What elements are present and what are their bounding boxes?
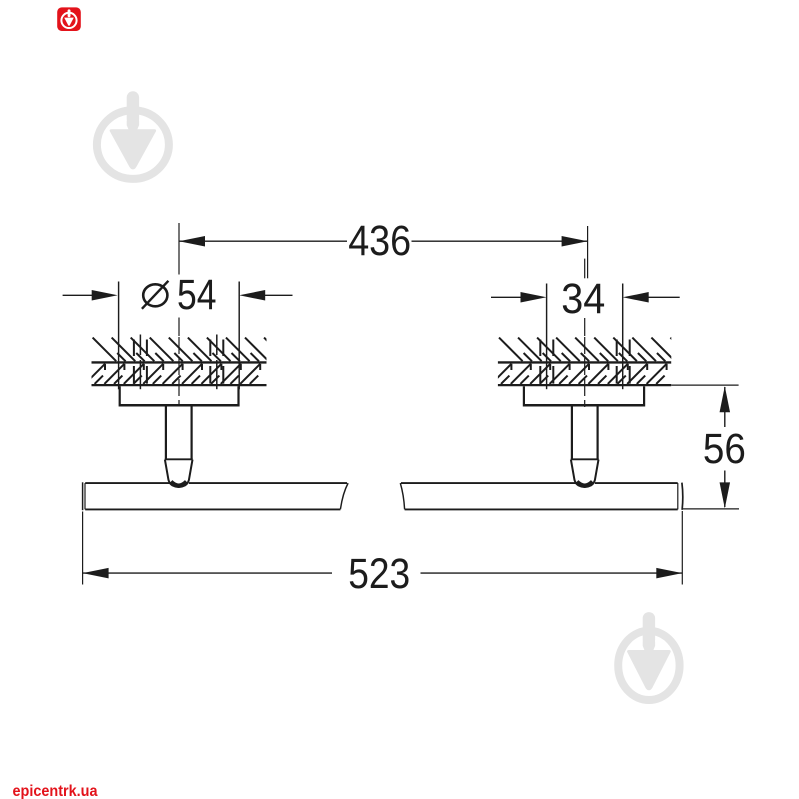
dimension diameter 54 extension line right [238, 282, 240, 390]
extension/centerline left fixture [178, 223, 180, 275]
watermark trowel logo top-left [97, 91, 169, 179]
stem left [165, 407, 167, 460]
red shop logo icon top-left [57, 7, 81, 31]
bolt centerline left-right [216, 335, 218, 356]
mounting plate right [523, 386, 525, 404]
wall back line right [498, 384, 671, 386]
svg-text:epicentrk.ua: epicentrk.ua [13, 783, 98, 799]
dimension diameter 54 arrow right [265, 294, 293, 296]
stem tip cap left [171, 482, 187, 486]
svg-text:56: 56 [703, 426, 746, 473]
dimension 436 arrow right [562, 236, 588, 247]
dimension 56 arrow down [720, 482, 731, 508]
bolt centerline left-left [139, 335, 141, 356]
wall surface line right [498, 361, 671, 363]
wall back line left [92, 384, 267, 386]
dimension 436 line [179, 240, 347, 242]
dimension 34 arrow left [491, 296, 522, 298]
dimension 523 line [83, 572, 332, 574]
dimension 523 extension line left [82, 512, 84, 585]
centerline right fixture [584, 259, 586, 279]
wall section hatching left [85, 338, 297, 384]
towel bar break edge right piece [400, 483, 404, 509]
dimension diameter 54 extension line left [118, 282, 120, 390]
dimension 523 extension line right [681, 511, 683, 585]
dimension 56 extension line top [671, 384, 738, 386]
dimension 34 extension line right [622, 284, 624, 390]
svg-text:34: 34 [561, 276, 605, 323]
mounting plate left [119, 386, 121, 404]
dimension 436 arrow left [179, 236, 205, 247]
towel bar left end cap [82, 482, 84, 510]
watermark trowel logo bottom-right [618, 612, 679, 700]
svg-text:436: 436 [348, 218, 411, 265]
wall surface line left [92, 361, 267, 363]
dimension diameter 54 arrow left [63, 294, 93, 296]
wall section hatching right [491, 338, 703, 384]
stem right [571, 407, 573, 460]
svg-text:54: 54 [177, 272, 217, 319]
towel bar top edge [85, 482, 169, 484]
dimension diameter 54 symbol [143, 284, 167, 306]
dimension 34 extension line left [546, 284, 548, 390]
dimension 56 extension line bottom [683, 508, 739, 510]
dimension 34 arrow right [648, 296, 680, 298]
towel bar right end cap [677, 483, 679, 509]
dimension 56 line [724, 387, 726, 427]
dimension 523 arrow right [656, 568, 682, 579]
dimension 56 arrow up [720, 386, 731, 412]
stem tip cap right [577, 482, 593, 486]
extension line 436 right [587, 226, 589, 278]
towel bar break edge left piece [340, 483, 348, 509]
svg-text:523: 523 [348, 551, 410, 598]
towel bar bottom edge [85, 508, 340, 510]
dimension 523 arrow left [83, 568, 109, 579]
